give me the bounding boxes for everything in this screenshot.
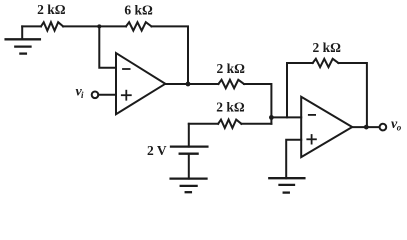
node D junction dot — [364, 125, 369, 130]
svg-text:2 V: 2 V — [147, 143, 167, 158]
resistor R5 2 kOhm feedback — [287, 59, 367, 127]
node B junction dot — [186, 82, 191, 87]
wire lower branch — [189, 123, 218, 125]
wire op-amp U2 inverting input — [271, 116, 301, 118]
resistor R1 2 kOhm — [41, 22, 63, 30]
wire — [244, 84, 271, 124]
svg-text:2 kΩ: 2 kΩ — [312, 40, 341, 55]
wire op-amp U1 inverting input — [99, 26, 116, 67]
wire — [241, 123, 271, 125]
resistor R2 6 kOhm — [126, 22, 152, 30]
ground battery — [171, 179, 207, 193]
wire — [22, 25, 41, 27]
wire U2 output — [352, 126, 379, 128]
wire U1 output — [165, 83, 218, 85]
svg-text:2 kΩ: 2 kΩ — [216, 61, 245, 76]
op-amp U2 — [301, 97, 352, 157]
wire — [152, 26, 189, 84]
wire — [98, 94, 116, 96]
op-amp U1 — [116, 53, 165, 114]
wire — [63, 25, 126, 27]
ground — [6, 26, 40, 53]
svg-text:2 kΩ: 2 kΩ — [37, 2, 66, 17]
node C junction dot — [269, 115, 274, 120]
resistor R4 2 kOhm — [218, 120, 241, 128]
node A junction dot — [97, 24, 101, 28]
ground op-amp U2 — [269, 178, 304, 192]
battery B1 2V — [171, 124, 207, 179]
terminal vo — [380, 124, 387, 131]
resistor R3 2 kOhm — [218, 80, 244, 88]
svg-text:2 kΩ: 2 kΩ — [216, 100, 245, 115]
svg-text:6 kΩ: 6 kΩ — [124, 2, 153, 17]
wire op-amp U2 noninverting input — [286, 140, 301, 178]
terminal vi — [92, 92, 99, 99]
